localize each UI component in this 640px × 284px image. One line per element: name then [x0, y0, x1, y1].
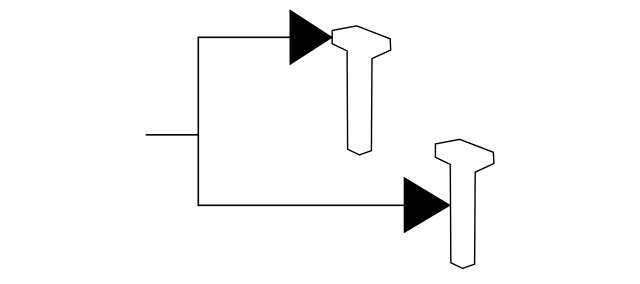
load T2 (bottom T-shaped outline)	[435, 139, 494, 268]
buffer U2 (bottom driver triangle)	[404, 178, 450, 233]
load T1 (top T-shaped outline)	[332, 26, 391, 155]
buffer U1 (top driver triangle)	[290, 10, 332, 64]
wire: input stub	[146, 134, 199, 136]
wire: bottom branch to buffer	[198, 204, 405, 206]
wire: top branch to buffer	[198, 36, 291, 38]
wire: vertical branch net	[197, 37, 199, 207]
